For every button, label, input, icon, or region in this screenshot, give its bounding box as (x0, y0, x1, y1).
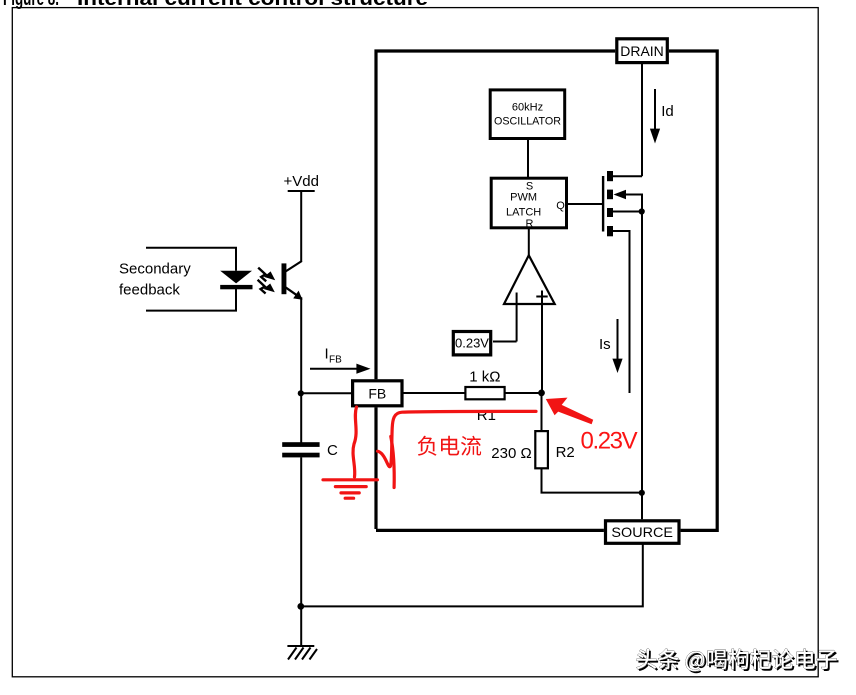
resistor R1 1k (465, 368, 504, 424)
red annotation: wavy stroke from FB pin to floating ground (323, 407, 536, 498)
svg-text:feedback: feedback (119, 282, 180, 299)
svg-text:Q: Q (556, 200, 565, 212)
svg-text:Is: Is (599, 336, 611, 353)
ground (287, 606, 317, 659)
body-diode arrow into second bar (614, 190, 627, 200)
wire: arrow bar to source rail (625, 195, 642, 520)
svg-text:C: C (327, 442, 338, 459)
svg-text:Secondary: Secondary (119, 261, 191, 278)
wire: main source bar to junction (613, 211, 642, 213)
wire: Q output to MOSFET gate (567, 203, 603, 205)
LED D1 of optocoupler (220, 271, 252, 290)
svg-text:DRAIN: DRAIN (620, 43, 664, 59)
svg-text:R2: R2 (556, 444, 575, 461)
svg-text:Figure 8.: Figure 8. (3, 0, 59, 10)
svg-text:SOURCE: SOURCE (611, 524, 673, 540)
pad DRAIN (617, 39, 668, 63)
optocoupler light arrows (258, 268, 276, 294)
pad SOURCE (606, 521, 680, 544)
wire: sense source bar down to comparator node (613, 231, 630, 393)
svg-text:Internal current control struc: Internal current control structure (77, 0, 428, 10)
PWM latch block (491, 178, 566, 230)
figure title (clipped at top edge) (3, 0, 428, 10)
svg-text:230 Ω: 230 Ω (491, 445, 531, 462)
red annotation: tail stroke (391, 437, 394, 488)
svg-text:0.23V: 0.23V (455, 336, 489, 351)
node: ground junction dot (297, 603, 304, 610)
MOSFET Q1 (sense FET) (602, 171, 645, 519)
red annotation: floating ground symbol (323, 478, 377, 481)
resistor R2 230ohm (491, 393, 574, 493)
svg-text:+Vdd: +Vdd (284, 173, 319, 190)
red annotation: arrow pointing at sense node (546, 398, 593, 425)
wire: +Vdd down to opto collector (300, 191, 302, 262)
pad FB (353, 381, 402, 406)
wire: R2 bottom to source rail (541, 492, 643, 494)
node: FB junction dot (298, 390, 304, 396)
wire: C bottom to ground node (300, 457, 302, 606)
svg-text:FB: FB (368, 385, 386, 401)
phototransistor Q2 (282, 261, 303, 300)
IFB label and arrow (310, 346, 371, 374)
Is current arrow (599, 319, 623, 373)
node: source rail dot (639, 490, 645, 496)
wire: minus input to 0.23V reference (493, 341, 517, 343)
capacitor C (282, 442, 338, 459)
+Vdd supply (284, 173, 319, 191)
wire: SOURCE down and left to ground rail (301, 545, 643, 607)
watermark 头条 @喝枸杞论电子 (637, 649, 839, 673)
svg-text:1 kΩ: 1 kΩ (469, 368, 500, 385)
wire: drain bar to drain rail (613, 175, 642, 177)
secondary feedback loop wires (119, 248, 236, 311)
wire: R1 to sense node (505, 392, 542, 394)
IC boundary box (376, 51, 717, 530)
node: sense node dot (538, 390, 545, 397)
wire: node to FB pad (301, 392, 351, 394)
svg-text:FB: FB (329, 355, 342, 366)
oscillator block U-OSC (490, 90, 565, 139)
wire: PWM R input from comparator (528, 228, 530, 256)
svg-text:PWM: PWM (510, 191, 537, 203)
wire: FB pad to R1 (402, 392, 465, 394)
svg-text:Id: Id (661, 103, 674, 120)
wire: emitter down to FB node (300, 299, 302, 444)
svg-text:0.23V: 0.23V (581, 428, 638, 455)
wire: oscillator to PWM latch S (527, 139, 529, 179)
red annotation: 负电流 text (418, 436, 481, 456)
0.23V reference box (453, 332, 490, 355)
svg-text:LATCH: LATCH (506, 207, 541, 219)
svg-text:OSCILLATOR: OSCILLATOR (494, 116, 561, 128)
svg-text:R1: R1 (477, 407, 496, 424)
Id current arrow (650, 89, 674, 144)
wire: DRAIN down to MOSFET drain (641, 64, 643, 176)
junction dot (639, 208, 645, 214)
red annotation: hook and line to sense node (378, 411, 537, 466)
comparator U2 (504, 255, 555, 393)
svg-text:60kHz: 60kHz (512, 102, 543, 114)
